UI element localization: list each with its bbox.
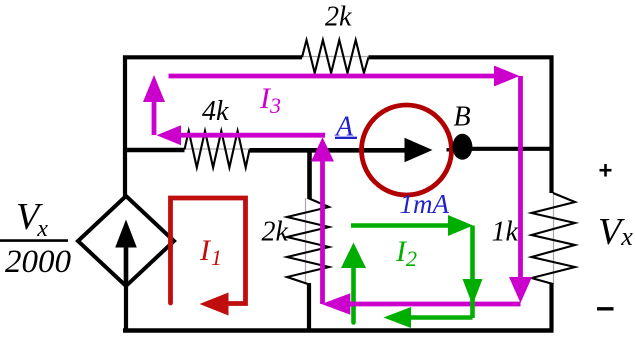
wire: middle horizontal wire (node A row) (123, 148, 185, 152)
wire: I2 top horizontal with right arrow (351, 223, 450, 228)
wire: middle wire from node B to right vertical (455, 147, 552, 151)
svg-text:4k: 4k (202, 96, 229, 127)
svg-text:I3: I3 (259, 82, 281, 118)
wire: stub from current source pin to node B dot (447, 148, 458, 151)
svg-text:Vx: Vx (16, 196, 48, 242)
wire: I2 bottom horizontal with left arrow (409, 315, 473, 320)
resistor 2k (vertical), zigzag (287, 198, 329, 284)
wire: I3 bottom horizontal with left arrow (349, 302, 521, 307)
mesh current I1 loop (dark red) (171, 198, 246, 304)
wire: from vertical 2k resistor bottom to bottom wire (307, 283, 311, 332)
wire: right vertical below 1k to bottom-right corner (549, 283, 553, 331)
svg-text:1mA: 1mA (400, 189, 450, 219)
wire: I3 right vertical with down arrow (518, 76, 523, 278)
wire: I3 top horizontal with right arrow (169, 74, 496, 79)
svg-text:2k: 2k (325, 2, 352, 33)
svg-text:1k: 1k (492, 217, 519, 248)
wire: vertical branch from middle wire down to vertical 2k resistor (307, 150, 312, 199)
label + (right) (604, 164, 607, 177)
svg-text:I1: I1 (199, 234, 222, 270)
wire: thin gray center line through top 2k resistor (301, 56, 369, 58)
resistor 4k, zigzag (185, 131, 250, 168)
wire: bottom outer wire (123, 328, 554, 333)
wire: I3 vertical up to node A with up arrow (320, 160, 325, 304)
svg-text:I2: I2 (395, 235, 417, 271)
label minus (right) (597, 307, 614, 310)
wire: middle wire from 4k through node A into current source (250, 148, 408, 153)
svg-text:2000: 2000 (5, 244, 72, 280)
resistor 1k, zigzag (532, 193, 576, 284)
wire: I2 left vertical with up arrow (drawn under magenta) (351, 266, 356, 323)
fraction bar (0, 239, 68, 242)
wire: I3 up arrow segment at left (152, 100, 157, 135)
svg-text:Vx: Vx (598, 211, 633, 253)
arrow inside current source (405, 138, 433, 163)
dependent source (diamond) Vx/2000 (78, 196, 174, 286)
wire: I2 right vertical with down arrow (470, 226, 475, 319)
current source U1 (circle) 1mA (362, 105, 452, 195)
wire: left vertical and top wire to 2k resistor (125, 57, 302, 196)
wire: I3 left arrow segment above 4k (179, 133, 325, 138)
arrow inside dependent source (124, 247, 129, 285)
svg-text:2k: 2k (262, 217, 289, 248)
wire: thin gray center line through vertical 2k resistor (305, 198, 307, 284)
wire: left vertical below dependent source (124, 286, 128, 332)
wire: thin gray center line through 4k resistor (184, 148, 250, 150)
svg-text:B: B (454, 102, 471, 133)
wire: top wire from 2k resistor to top-right corner, down to 1k (369, 57, 552, 193)
wire: thin gray center line through 1k resistor (553, 193, 555, 284)
resistor 2k (top), zigzag (302, 40, 369, 73)
node B junction dot (452, 134, 472, 160)
